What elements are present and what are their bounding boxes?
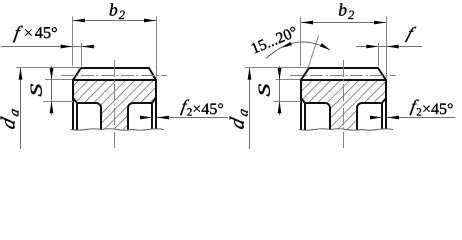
label d_a (right figure) [230, 106, 248, 131]
hatching (right figure section) [301, 80, 386, 134]
rim underside, right window (right figure) [357, 99, 386, 135]
rim underside, left window (left figure) [73, 99, 101, 135]
dimension d_a (right figure): dimension line with arrow [249, 68, 251, 150]
label f (right figure) [405, 27, 416, 42]
dimension f x45 (left figure): extension line [81, 43, 83, 66]
label d_a (left figure) [1, 106, 19, 131]
dimension b2 (left figure): dimension line with arrows [73, 20, 156, 22]
dimension b2 (left figure): extension lines [72, 17, 74, 67]
label S (left figure) [31, 84, 42, 96]
dimension f (right figure): extension line [378, 43, 380, 66]
hatching (left figure section) [73, 80, 156, 134]
dimension f (right figure): dimension line with arrows [356, 46, 422, 48]
slant edge extension line (right figure) [308, 36, 319, 68]
dimension d_a (left figure): dimension line with arrow [20, 68, 22, 150]
centerline axis (right figure) [343, 60, 345, 148]
break line (wavy) (right figure) [299, 129, 393, 142]
pitch line (right figure) [290, 75, 396, 77]
centerline axis (left figure) [114, 60, 116, 148]
dimension d_a (left figure): extension line [16, 67, 81, 69]
break line (wavy) (left figure) [71, 129, 165, 142]
dimension b2 (right figure): dimension line with arrows [301, 22, 386, 24]
label f x45 (left figure) [13, 26, 23, 43]
dimension b2 (right figure): extension lines [300, 17, 302, 67]
tooth root line (left figure) [72, 79, 157, 81]
dimension S (right figure): extension lines [276, 79, 301, 81]
label b2 (left figure) [110, 3, 125, 19]
dimension d_a (right figure): extension line [245, 67, 308, 69]
dimension f2 x45 (left figure): leader and arrows [157, 117, 228, 119]
label b2 (right figure) [339, 3, 354, 19]
dimension S (left figure): extension lines [45, 79, 72, 81]
label S (right figure) [259, 84, 270, 96]
label 15...20 deg (right figure) [251, 26, 298, 54]
label f2 x45 (left figure) [180, 100, 189, 116]
label f2 x45 (right figure) [410, 100, 419, 116]
rim underside, left window (right figure) [301, 99, 330, 135]
dimension S (right figure): dimension line with arrows [279, 66, 281, 115]
gear rim outline (left figure) [73, 68, 156, 134]
dimension f x45 (left figure): dimension line [1, 46, 95, 48]
gear rim outline (right figure) [301, 68, 386, 134]
rim underside, right window (left figure) [128, 99, 156, 135]
tooth root line (right figure) [300, 79, 387, 81]
dimension f2 x45 (right figure): leader and arrows [387, 117, 456, 119]
dimension S (left figure): dimension line with arrows [51, 66, 53, 115]
angle arc 15...20 deg (right figure) [266, 42, 330, 59]
pitch line (left figure) [61, 75, 167, 77]
